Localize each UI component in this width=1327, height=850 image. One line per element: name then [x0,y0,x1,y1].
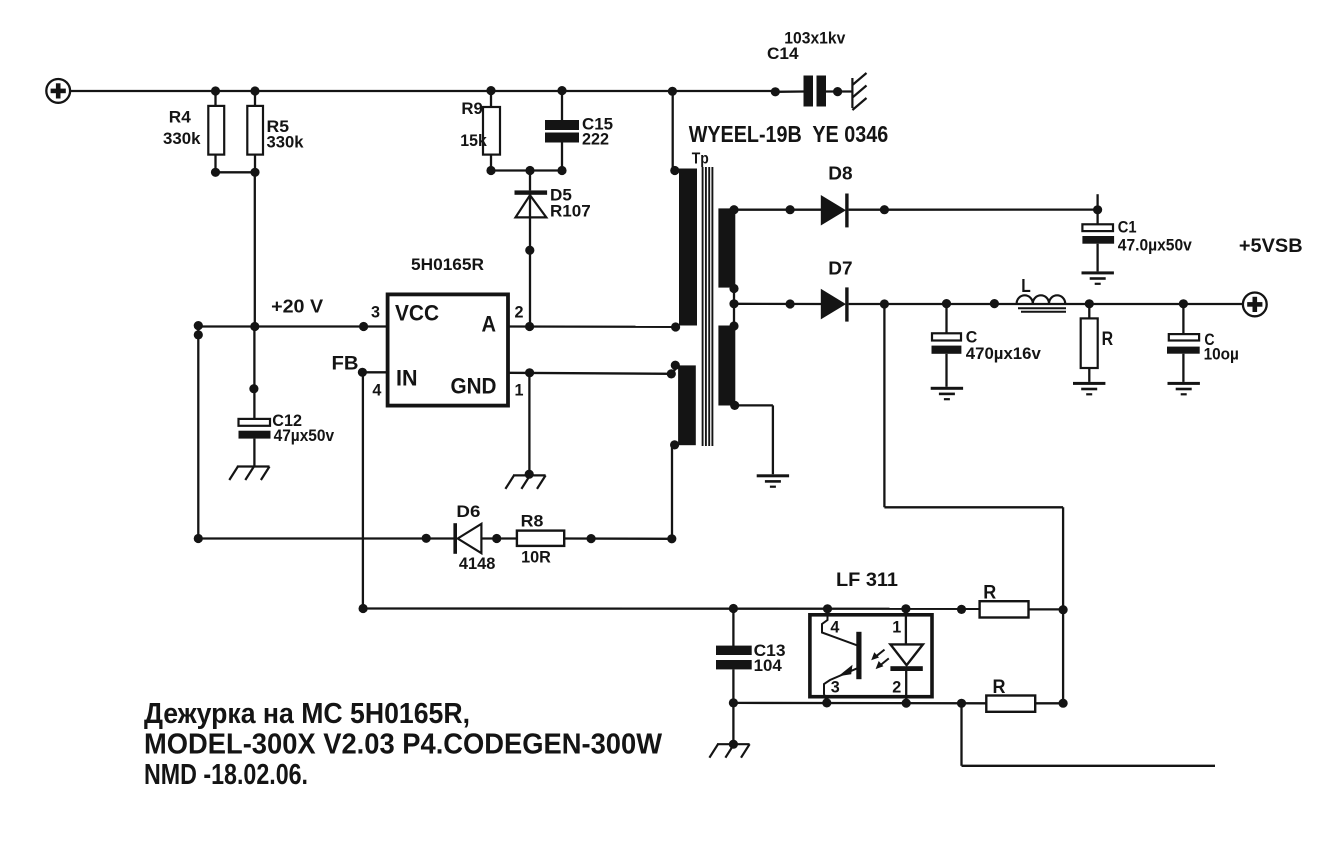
svg-text:LF 311: LF 311 [836,570,898,591]
wire opto top row [363,607,980,610]
value 10ou [1204,344,1239,363]
wire D6-R8 [481,537,517,539]
label 5H0165R [411,255,484,274]
ground C1 (earth) [1082,271,1114,285]
node C15 bottom [557,166,566,175]
transformer Tp aux winding [678,365,696,445]
caption line 3 [144,759,308,791]
capacitor C1 minus plate [1082,236,1114,244]
label R lower [993,677,1006,698]
svg-text:R: R [983,583,996,604]
svg-text:L: L [1021,276,1031,296]
svg-text:47µx50v: 47µx50v [274,426,335,445]
svg-text:GND: GND [451,374,497,399]
diode D5 cathode bar [515,190,548,194]
node D6 row left [194,534,203,543]
wire A pin2 row [508,325,676,328]
svg-text:103x1kv: 103x1kv [784,29,845,48]
ground C10o (earth) [1168,382,1200,396]
wire C12 bottom lead [253,439,255,467]
wire GND pin1 row [508,373,672,374]
node opto pin2 [902,699,911,708]
value 330k (R5) [267,133,305,152]
led arrow 1 [871,650,884,661]
label +5VSB [1239,236,1303,257]
svg-text:10oµ: 10oµ [1204,344,1239,363]
op-amp U1 5H0165R box [388,294,508,405]
pin number 3 [371,302,380,321]
wire C470 top lead [945,304,947,334]
ground secondary (earth) [757,474,789,488]
wire opto bottom row [733,702,986,705]
node C12 top [250,322,259,331]
node R-upper right [1059,605,1068,614]
svg-text:5H0165R: 5H0165R [411,255,484,274]
wire R4 top lead [214,91,216,107]
node C12 mid [249,384,258,393]
svg-text:1: 1 [892,617,901,636]
transformer Tp secondary winding 2 [718,326,735,406]
diode D8 [821,194,849,228]
node C470 top [942,299,951,308]
wire R5 top lead [254,91,256,107]
diode D7 [821,287,849,321]
pin name VCC [395,301,439,326]
wire +20V rail [198,325,387,327]
capacitor C13 [716,646,752,670]
transistor Q1 emitter lead [824,668,858,703]
led cathode lead [905,671,907,703]
opto pin label 3 [831,677,840,696]
value 222 (C15) [582,129,609,148]
wire R9 bottom lead [490,155,492,171]
wire R5 bottom lead [254,155,256,173]
label D6 [456,502,480,521]
wire R4-R5 bottom link [216,171,256,173]
node C13 top [729,604,738,613]
value 47.0ux50v (C1) [1118,236,1192,255]
wire C10o top lead [1182,304,1184,335]
node ground pin1 [525,470,534,479]
chassis ground (mains) [852,73,866,110]
node D6 row right [667,534,676,543]
svg-text:R8: R8 [521,512,544,531]
capacitor C10o minus plate [1167,347,1200,354]
resistor R upper [980,601,1029,617]
capacitor C10o plus plate [1169,334,1199,340]
wire R5 to +20V rail [254,172,256,326]
node R-lower left [957,699,966,708]
svg-text:R107: R107 [550,202,591,221]
svg-text:R9: R9 [461,99,483,118]
pin number 2 [515,302,524,321]
wire left drop to D6 row [197,327,199,539]
op-amp U2 LF311 optocoupler box [810,615,932,697]
node primary top [670,166,679,175]
pin number 1 [515,380,524,399]
node R4 bottom [211,168,220,177]
svg-text:104: 104 [754,656,783,675]
wire feedback horizontal [884,506,1063,508]
node D5 top [525,166,534,175]
value 103x1kv (C14) [784,29,845,48]
resistor R4 [208,106,224,155]
wire C14 right lead [826,90,852,92]
wire feedback return bottom [962,765,1216,767]
resistor R9 [483,107,500,155]
node FB pin4 [358,368,367,377]
svg-text:15k: 15k [460,131,487,150]
wire GND drop to ground [528,373,530,476]
node secondary 2 bottom [730,401,739,410]
node L left [990,299,999,308]
caption line 1 [144,698,470,730]
svg-text:IN: IN [396,366,418,391]
label C13 [754,641,786,660]
led arrow 2 [876,658,889,669]
node rail-R5 [250,86,259,95]
caption line 2 [144,729,663,761]
output terminal + (+5VSB) [1243,293,1267,317]
node D8 cathode junction [880,205,889,214]
value 4148 (D6) [459,554,496,573]
svg-text:A: A [482,312,497,337]
value 10R (R8) [521,547,551,566]
led cathode bar [890,666,922,671]
transistor Q1 collector lead [822,609,857,646]
node R-upper left [957,605,966,614]
value 15k (R9) [460,131,487,150]
wire FB drop [362,372,364,608]
node opto pin4 [823,604,832,613]
label C1 [1118,217,1137,236]
wire C13 ground drop [732,703,734,745]
ground C12 (chassis) [229,467,269,481]
node opto pin1 [901,604,910,613]
diode D5 triangle [516,195,547,217]
label R9 [461,99,483,118]
svg-text:47.0µx50v: 47.0µx50v [1118,236,1192,255]
wire aux bottom drop [671,445,673,539]
capacitor C14 [804,76,827,107]
wire R top lead [1088,304,1090,319]
wire R bottom lead [1088,368,1090,382]
node opto pin3 [822,698,831,707]
svg-text:4: 4 [372,380,382,399]
label C14 [767,44,799,63]
ground C470 (earth) [931,387,963,401]
node VCC pin wire [359,322,368,331]
svg-text:10R: 10R [521,547,551,566]
wire C1 top lead [1096,210,1098,225]
wire secondary to ground [735,405,773,474]
wire R4 bottom lead [214,155,216,173]
svg-text:R4: R4 [169,108,192,127]
wire FB pin4 lead [362,371,387,373]
node +20V left b [194,330,203,339]
resistor R lower [986,696,1035,712]
node rail-R4 [211,86,220,95]
pin name A [482,312,497,337]
node aux winding top b [667,369,676,378]
node aux winding bottom [670,440,679,449]
svg-text:2: 2 [515,302,524,321]
node primary 1 bottom (A) [671,322,680,331]
svg-text:FB: FB [332,353,359,374]
svg-text:D7: D7 [828,259,852,279]
node rail-R9 [486,86,495,95]
transistor Q1 base bar [856,632,861,679]
label R8 [521,512,544,531]
led anode lead [905,609,907,645]
svg-text:C1: C1 [1118,217,1137,236]
node D8 anode side [786,205,795,214]
label LF 311 [836,570,898,591]
wire feedback return drop [960,703,962,766]
pin name GND [451,374,497,399]
wire D5 cathode lead [529,171,531,191]
node secondary center tap [729,299,738,308]
node rail-C15 [557,86,566,95]
svg-text:222: 222 [582,129,609,148]
capacitor C15 [545,120,579,143]
label C12 [272,411,302,430]
transformer Tp secondary winding 1 [718,208,735,287]
led triangle [890,644,923,665]
ground primary (chassis) [505,475,545,489]
wire R9 top lead [490,91,492,108]
wire secondary center link [733,289,735,327]
node FB corner [359,604,368,613]
label R5 [267,117,290,136]
node R9 bottom [486,166,495,175]
svg-text:470µx16v: 470µx16v [966,344,1042,363]
wire output drop vertical [883,304,885,507]
wire C470 bottom lead [945,354,947,387]
label D7 [828,259,852,279]
wire center tap to D7 [734,303,822,306]
wire C15 top lead [561,91,563,121]
transistor Q1 emitter arrow [838,665,852,677]
wire rail to primary top [672,91,674,170]
label +20 V [271,296,323,316]
wire C14 left lead [775,90,804,93]
svg-text:4148: 4148 [459,554,496,573]
node D7 anode side [786,299,795,308]
svg-text:D8: D8 [828,163,852,183]
node C10o top [1179,299,1188,308]
svg-text:+5VSB: +5VSB [1239,236,1303,257]
value 470ux16v [966,344,1042,363]
node secondary 1 bottom [729,284,738,293]
wire C1 bottom lead [1096,244,1098,272]
node C13 ground [729,740,738,749]
wire D5 anode lead [529,195,531,327]
wire secondary1 to D8 [734,209,822,211]
ground C13 (chassis) [709,744,749,758]
label Tp [692,151,709,168]
opto pin label 1 [892,617,901,636]
node C1 top [1093,205,1102,214]
wire feedback down to R pair [1062,507,1064,703]
node R top [1085,299,1094,308]
wire R upper right lead [1029,608,1064,610]
wire aux top stub [671,366,678,374]
label C (470u) [966,328,978,347]
label C (10o) [1204,330,1214,349]
capacitor C1 plus plate [1082,224,1113,231]
inductor L [1017,295,1066,312]
node D6 anode [492,534,501,543]
svg-text:4: 4 [830,617,840,636]
wire R lower right lead [1035,702,1063,704]
node R8 right [587,534,596,543]
node D5 anode [525,246,534,255]
opto pin label 2 [892,678,901,697]
node C13 bottom [729,698,738,707]
wire snubber junction row [491,169,562,171]
wire C12 top lead [253,327,255,420]
diode D6 cathode bar [453,523,457,554]
label R4 [169,108,192,127]
node A-D5 [525,322,534,331]
wire C10o bottom lead [1182,354,1184,382]
node R5 bottom [250,168,259,177]
value 330k (R4) [163,129,201,148]
capacitor C12 minus plate [239,431,271,439]
transformer Tp core [703,167,713,446]
svg-text:VCC: VCC [395,301,439,326]
ground R (earth) [1073,382,1105,396]
wire C15 bottom lead [561,143,563,171]
capacitor C470 plus plate [932,333,961,340]
label D5 [550,185,572,204]
node secondary 2 top [729,321,738,330]
svg-text:R: R [993,677,1006,698]
resistor R5 [247,106,263,155]
capacitor C470 minus plate [932,346,962,354]
svg-text:WYEEL-19B YE 0346: WYEEL-19B YE 0346 [689,121,889,147]
svg-text:1: 1 [515,380,524,399]
capacitor C12 plus plate [239,419,271,426]
label R upper [983,583,996,604]
wire D6 row left [198,537,454,539]
node rail-C14 [771,87,780,96]
svg-text:330k: 330k [267,133,305,152]
node D6 cathode side [422,534,431,543]
svg-text:NMD -18.02.06.: NMD -18.02.06. [144,759,308,791]
svg-text:MODEL-300X V2.03 P4.CODEGEN-30: MODEL-300X V2.03 P4.CODEGEN-300W [144,729,663,761]
wire R8 right [564,537,672,540]
label FB [332,353,359,374]
pin number 4 [372,380,382,399]
input terminal + (rectified mains) [46,79,70,103]
svg-text:3: 3 [371,302,380,321]
svg-text:2: 2 [892,678,901,697]
wire D8 to C1 [849,208,1098,210]
value 47ux50v (C12) [274,426,335,445]
svg-text:D6: D6 [456,502,480,521]
node secondary 1 top [729,205,738,214]
wire C13 top lead [732,609,734,647]
label C15 [582,114,613,133]
svg-text:330k: 330k [163,129,201,148]
node output drop [880,299,889,308]
svg-text:+20 V: +20 V [271,296,323,316]
label L [1021,276,1031,296]
opto pin label 4 [830,617,840,636]
svg-text:R: R [1102,329,1114,350]
wire C13 bottom lead [732,669,734,703]
wire D7 output row [849,303,1244,305]
node rail-Tp [668,87,677,96]
pin name IN [396,366,418,391]
node +20V left a [194,321,203,330]
value 104 (C13) [754,656,783,675]
value R107 (D5) [550,202,591,221]
label WYEEL-19B YE 0346 [689,121,889,147]
label R (bleeder) [1102,329,1114,350]
label D8 [828,163,852,183]
node R-lower right [1059,699,1068,708]
svg-text:Дежурка на МС 5H0165R,: Дежурка на МС 5H0165R, [144,698,470,730]
resistor R8 [517,531,564,546]
resistor R (bleeder) [1081,318,1098,368]
diode D6 triangle [458,524,482,553]
wire C1 stub up [1096,194,1098,210]
wire top rail [70,90,775,92]
transformer Tp primary winding 1 [679,169,697,326]
svg-text:Tp: Tp [692,151,709,168]
node C14 right [833,87,842,96]
node GND-drop [525,368,534,377]
node aux winding top a [671,361,680,370]
